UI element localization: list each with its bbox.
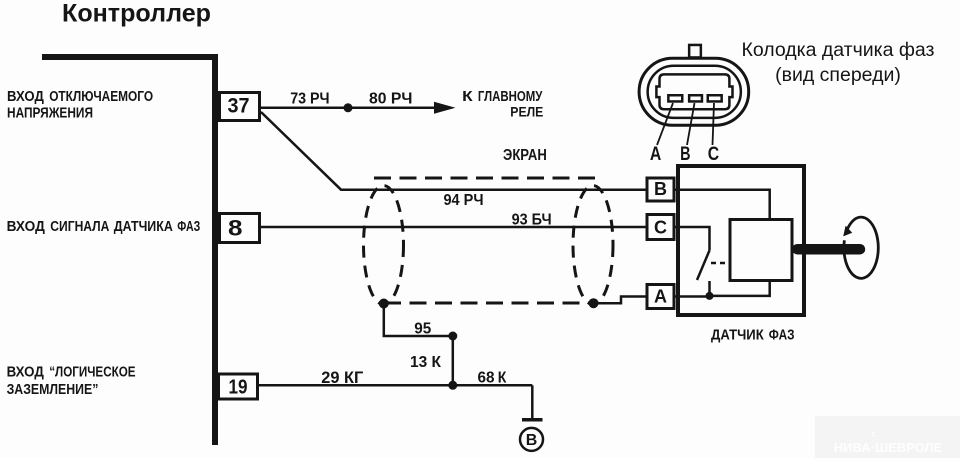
svg-text:ЭКРАН: ЭКРАН (503, 147, 547, 164)
shield left ellipse (364, 186, 404, 305)
pin 19 box (219, 374, 258, 399)
connector pin A slot (668, 95, 682, 101)
controller boundary wall (42, 57, 215, 445)
svg-text:г.: г. (871, 429, 876, 439)
svg-text:В: В (680, 144, 690, 165)
svg-text:37: 37 (228, 95, 250, 118)
svg-text:29 КГ: 29 КГ (321, 369, 364, 387)
svg-text:“ЛОГИЧЕСКОЕ: “ЛОГИЧЕСКОЕ (49, 364, 136, 380)
sensor internal wire from A to hall element (674, 281, 770, 297)
svg-text:73 РЧ: 73 РЧ (290, 90, 329, 107)
svg-text:НАПРЯЖЕНИЯ: НАПРЯЖЕНИЯ (7, 106, 93, 122)
wire 68 К drop to ground (531, 385, 534, 418)
wire 95 from shield to node (384, 304, 453, 337)
watermark panel (815, 416, 960, 458)
svg-text:68: 68 (478, 370, 495, 387)
sensor internal wire from C to switch (674, 227, 710, 250)
svg-text:К: К (498, 370, 507, 387)
svg-text:РЕЛЕ: РЕЛЕ (510, 104, 543, 120)
svg-text:80 РЧ: 80 РЧ (369, 90, 412, 107)
svg-text:ФАЗ: ФАЗ (177, 219, 200, 235)
connector inner ring (648, 66, 741, 118)
shield left junction dot (379, 299, 389, 309)
junction dot at 95/13K corner (448, 332, 457, 341)
sensor body box (678, 166, 804, 315)
leader line pin C (713, 103, 715, 145)
leader line pin B (687, 103, 695, 145)
connector pin C slot (708, 95, 722, 101)
sensor pin B box (647, 178, 674, 201)
dashed actuation link to hall element (711, 262, 729, 265)
leader line pin A (657, 103, 673, 145)
svg-text:8: 8 (228, 216, 243, 241)
switch blade (697, 250, 710, 280)
pin 37 box (220, 93, 260, 121)
ground bar (522, 418, 543, 422)
svg-text:ВХОД: ВХОД (7, 219, 46, 235)
wire 93 БЧ from pin 8 to C (260, 226, 646, 229)
svg-text:ОТКЛЮЧАЕМОГО: ОТКЛЮЧАЕМОГО (49, 89, 153, 105)
ground terminal B circle (520, 428, 543, 451)
junction dot on wire 73/80 (344, 103, 353, 112)
wire 13 К vertical (452, 336, 455, 385)
shield right ellipse (573, 186, 613, 305)
svg-text:В: В (526, 432, 538, 449)
svg-text:ВХОД: ВХОД (7, 364, 45, 380)
svg-text:95: 95 (414, 320, 431, 337)
svg-text:93 БЧ: 93 БЧ (512, 211, 552, 228)
svg-text:А: А (650, 144, 662, 165)
svg-text:ЗАЗЕМЛЕНИЕ”: ЗАЗЕМЛЕНИЕ” (7, 382, 99, 398)
shield top dashed line (374, 177, 600, 180)
connector tab (689, 45, 701, 58)
rotation arrowhead (843, 226, 852, 237)
wire from shield to sensor pin A (594, 297, 647, 304)
svg-text:Контроллер: Контроллер (62, 0, 211, 28)
svg-text:С: С (708, 144, 720, 165)
svg-text:ФАЗ: ФАЗ (769, 328, 795, 344)
junction dot on ground wire (448, 381, 457, 390)
sensor pin A box (647, 285, 674, 309)
shield bottom dashed line (384, 302, 594, 305)
wire 29 КГ from pin 19 (257, 384, 532, 387)
rotation arrow ellipse (844, 217, 878, 278)
sensor pin C box (647, 215, 674, 240)
sensor shaft (797, 244, 860, 255)
svg-text:ДАТЧИКА: ДАТЧИКА (114, 219, 173, 235)
svg-text:В: В (654, 179, 667, 199)
wire 94 РЧ (diagonal from pin 37 then horizontal to B) (261, 112, 646, 190)
switch lower contact stub (708, 281, 711, 296)
sensor internal wire from B to hall element (674, 190, 770, 220)
svg-text:94 РЧ: 94 РЧ (444, 192, 484, 209)
connector keyway outline (656, 74, 732, 109)
hall element square (730, 220, 792, 281)
svg-text:СИГНАЛА: СИГНАЛА (50, 219, 110, 235)
svg-text:13 К: 13 К (410, 354, 441, 371)
wire 73РЧ/80РЧ to main relay (261, 107, 437, 110)
svg-text:(вид спереди): (вид спереди) (775, 64, 901, 86)
svg-text:ВХОД: ВХОД (7, 89, 44, 105)
svg-text:ДАТЧИК: ДАТЧИК (711, 328, 764, 344)
svg-text:19: 19 (229, 377, 248, 399)
connector pin B slot (689, 95, 702, 101)
svg-text:С: С (654, 218, 667, 238)
pin 8 box (220, 214, 260, 243)
shield right junction dot (589, 298, 599, 308)
svg-text:А: А (654, 287, 667, 307)
connector outer shell (639, 58, 749, 125)
junction dot on sensor A wire (706, 292, 714, 300)
arrowhead to main relay (434, 102, 456, 114)
svg-text:Колодка датчика фаз: Колодка датчика фаз (741, 39, 934, 61)
svg-text:К: К (462, 89, 473, 105)
svg-text:НИВА·ШЕВРОЛЕ: НИВА·ШЕВРОЛЕ (834, 440, 943, 455)
